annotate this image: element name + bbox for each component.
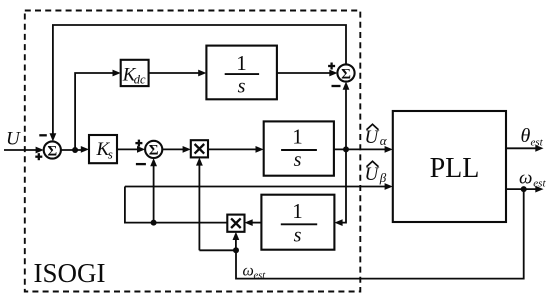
svg-text:s: s <box>108 147 113 162</box>
wire feedback up to sum2 minus input <box>153 164 155 223</box>
svg-text:s: s <box>294 225 302 247</box>
arrow into middle multiplier left <box>183 146 191 153</box>
summing junction sum1 <box>44 141 61 158</box>
wire theta_est output <box>506 147 537 149</box>
svg-text:β: β <box>379 170 387 185</box>
arrow into sum1 left <box>36 147 44 154</box>
summing junction sum2 <box>145 141 162 158</box>
wire sum1 to Ks <box>61 149 83 151</box>
ISOGI dashed boundary <box>25 11 361 292</box>
arrow into Ks <box>81 146 89 153</box>
wire omega_est output <box>506 188 537 190</box>
svg-text:Σ: Σ <box>341 66 351 82</box>
node omega_est output <box>521 186 527 192</box>
arrowheads <box>36 70 544 240</box>
svg-text:1: 1 <box>292 125 303 149</box>
wire omega horizontal segment <box>199 249 236 251</box>
wire top integrator to sum3 <box>277 72 332 74</box>
wire Kdc to top integrator <box>149 72 200 74</box>
block Kdc <box>121 60 149 86</box>
multiplier middle <box>191 140 208 157</box>
sign minus sum1 top <box>39 134 47 136</box>
svg-text:PLL: PLL <box>430 153 480 184</box>
svg-text:ISOGI: ISOGI <box>34 258 106 288</box>
wire node A up to Kdc <box>75 73 114 150</box>
node omega <box>233 247 239 253</box>
arrow into sum2 left <box>137 146 145 153</box>
sign plus sum3 left <box>328 65 335 67</box>
wire omega up into bottom multiplier <box>235 238 237 250</box>
svg-text:est: est <box>533 178 546 190</box>
arrow into Kdc <box>113 70 121 77</box>
multiplier bottom <box>227 215 244 232</box>
arrow Ubeta into PLL <box>385 183 393 190</box>
arrow into middle multiplier bottom <box>196 157 203 165</box>
arrow into sum3 left <box>329 70 337 77</box>
sign minus sum2 bottom <box>136 163 146 165</box>
plus / minus signs <box>35 63 340 165</box>
svg-text:Σ: Σ <box>149 143 159 159</box>
svg-text:ω: ω <box>243 263 254 280</box>
wire middle multiplier to middle integrator <box>208 148 258 150</box>
arrow into sum2 bottom <box>150 158 157 166</box>
block middle integrator 1/s <box>264 121 334 175</box>
wire middle integrator to PLL (Ualpha) <box>334 148 387 150</box>
svg-text:s: s <box>294 149 302 171</box>
arrow into sum3 bottom <box>343 82 350 90</box>
wire Ualpha node down into bottom integrator <box>341 149 346 222</box>
arrow omega_est out <box>535 186 543 193</box>
svg-text:U: U <box>365 164 380 185</box>
svg-text:est: est <box>531 137 544 149</box>
block bottom integrator 1/s <box>261 195 334 250</box>
wire U input <box>4 149 37 151</box>
svg-text:s: s <box>238 76 246 98</box>
svg-text:α: α <box>380 133 388 148</box>
arrow into bottom multiplier right <box>245 219 253 226</box>
block Ks <box>89 135 117 163</box>
arrow into bottom multiplier bottom <box>233 232 240 240</box>
arrow into sum1 top <box>50 133 57 141</box>
arrow into bottom integrator right <box>334 219 342 226</box>
svg-text:θ: θ <box>521 125 531 147</box>
sign plus sum1 left <box>35 156 42 158</box>
svg-text:1: 1 <box>292 199 303 223</box>
block PLL <box>393 111 506 222</box>
svg-text:U: U <box>365 127 380 148</box>
multiplier X glyphs <box>195 144 241 228</box>
svg-text:U: U <box>6 129 21 150</box>
wire Ubeta to PLL <box>125 186 387 188</box>
sign plus sum2 left <box>135 142 142 144</box>
arrow Ualpha into PLL <box>385 146 393 153</box>
wire Ualpha node up to sum3 minus input <box>345 88 347 150</box>
svg-text:ω: ω <box>519 168 532 189</box>
sign minus sum3 bottom <box>332 85 341 87</box>
wire bottom multiplier output loop to Ubeta line <box>125 187 227 223</box>
svg-text:est: est <box>254 271 267 282</box>
arrow into top integrator <box>198 70 206 77</box>
wire sum2 to middle multiplier <box>162 148 185 150</box>
wire Ks to sum2 <box>117 148 139 150</box>
wire top feedback loop (sum3 output to sum1 top) <box>53 25 346 135</box>
arrow into middle integrator <box>256 146 264 153</box>
svg-text:dc: dc <box>134 73 146 87</box>
wire omega_est return path from PLL output <box>236 189 524 279</box>
node A <box>72 147 78 153</box>
wire bottom integrator to bottom multiplier <box>251 222 262 224</box>
svg-text:1: 1 <box>236 51 247 75</box>
arrow theta_est out <box>535 145 543 152</box>
node Ualpha <box>343 146 349 152</box>
node sum2 feedback <box>151 220 157 226</box>
svg-text:Σ: Σ <box>47 143 57 159</box>
block top integrator 1/s <box>206 46 277 100</box>
wire omega up into middle multiplier <box>198 164 200 250</box>
summing junction sum3 top <box>337 64 354 81</box>
